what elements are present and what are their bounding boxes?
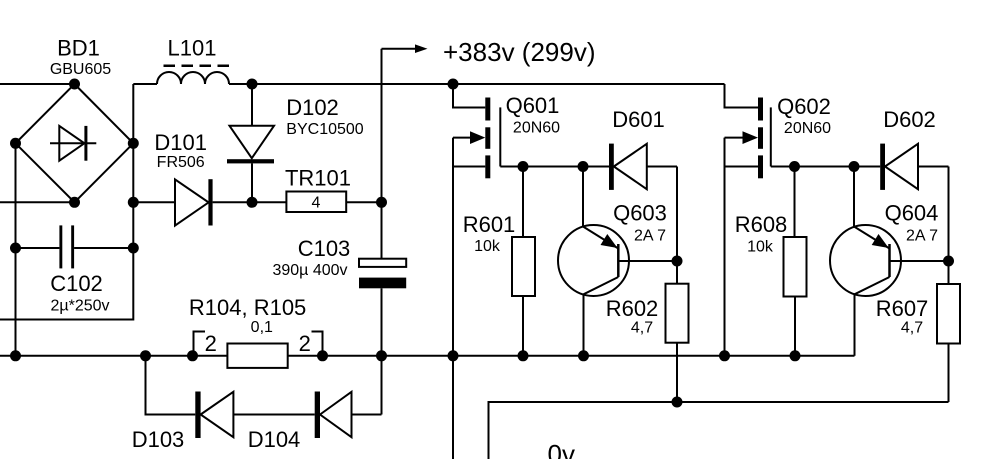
node rail x145 (140, 350, 151, 361)
svg-text:0,1: 0,1 (251, 319, 273, 336)
svg-text:GBU605: GBU605 (50, 61, 111, 78)
svg-text:D104: D104 (248, 427, 301, 452)
svg-text:Q604: Q604 (885, 201, 939, 226)
diode D102 (227, 84, 274, 202)
wire (0, 84, 133, 320)
transistor Q604 (830, 167, 949, 356)
mosfet Q601 (453, 84, 523, 459)
node rail x795 (790, 350, 801, 361)
node Q604 emitter tap (849, 161, 860, 172)
node rail x453 (448, 350, 459, 361)
svg-text:D602: D602 (883, 107, 936, 132)
svg-text:D101: D101 (154, 130, 207, 155)
svg-text:Q601: Q601 (506, 93, 560, 118)
diode D103 (146, 356, 315, 438)
diode D104 (315, 392, 382, 439)
resistor R104, R105 (227, 344, 287, 368)
svg-text:R602: R602 (606, 296, 659, 321)
wire top rail (252, 83, 725, 85)
node gate Q601 (518, 161, 529, 172)
node bridge left (10, 138, 21, 149)
node bridge top (69, 79, 80, 90)
transformer winding TR101 (252, 192, 382, 213)
mosfet Q602 (725, 84, 795, 356)
resistor R601 (512, 167, 535, 356)
pin bracket 2 left (194, 332, 206, 352)
wire bottom rail right (288, 355, 855, 357)
diode D602 (854, 144, 949, 190)
svg-text:C102: C102 (50, 271, 103, 296)
node C102 left (10, 243, 21, 254)
svg-text:10k: 10k (474, 238, 501, 255)
wire (795, 166, 855, 168)
svg-text:2µ*250v: 2µ*250v (50, 298, 109, 315)
svg-text:TR101: TR101 (285, 166, 351, 191)
svg-text:D601: D601 (612, 107, 665, 132)
svg-text:20N60: 20N60 (784, 120, 831, 137)
node rail x322 (317, 350, 328, 361)
wire bottom rail left (0, 355, 227, 357)
svg-text:FR506: FR506 (157, 154, 205, 171)
node C102 right (128, 243, 139, 254)
svg-text:C103: C103 (298, 236, 351, 261)
node rail x583 (578, 350, 589, 361)
svg-text:R104, R105: R104, R105 (189, 295, 306, 320)
resistor R602 (666, 284, 689, 402)
node coil out (247, 79, 258, 90)
svg-text:4: 4 (312, 195, 321, 212)
node rail x523 (518, 350, 529, 361)
+383v output arrow (382, 44, 428, 258)
wire D601 anode down (676, 167, 678, 284)
wire D602 anode down (948, 167, 950, 285)
svg-text:4,7: 4,7 (631, 320, 653, 337)
svg-text:2: 2 (299, 331, 311, 356)
svg-text:D103: D103 (132, 427, 185, 452)
node Q603 base (672, 256, 683, 267)
svg-text:390µ 400v: 390µ 400v (272, 262, 347, 279)
node bridge right (128, 138, 139, 149)
node drain tap Q601 (448, 79, 459, 90)
node gate Q602 (789, 161, 800, 172)
svg-text:2A 7: 2A 7 (906, 227, 938, 244)
node rail x381 (376, 350, 387, 361)
bridge rectifier BD1 (16, 84, 134, 202)
svg-text:R601: R601 (463, 212, 516, 237)
inductor L101 (133, 66, 252, 84)
capacitor C102 (16, 225, 134, 268)
svg-text:10k: 10k (747, 238, 774, 255)
pin bracket 2 right (312, 332, 323, 352)
node Q603 emitter tap (578, 161, 589, 172)
node rail x15 (10, 350, 21, 361)
svg-text:0v: 0v (548, 439, 575, 459)
svg-text:BYC10500: BYC10500 (286, 121, 363, 138)
svg-text:D102: D102 (286, 95, 339, 120)
node 0v rail (672, 397, 683, 408)
node bridge bottom (69, 197, 80, 208)
svg-text:+383v (299v): +383v (299v) (443, 37, 595, 67)
resistor R607 (937, 284, 960, 402)
node D101 left (128, 197, 139, 208)
svg-text:L101: L101 (168, 36, 217, 61)
wire (15, 143, 17, 355)
svg-text:2: 2 (205, 331, 217, 356)
svg-text:BD1: BD1 (57, 36, 100, 61)
diode D601 (583, 144, 677, 190)
svg-text:Q603: Q603 (613, 201, 667, 226)
node rail x192 (187, 350, 198, 361)
resistor R608 (784, 167, 807, 356)
svg-text:Q602: Q602 (777, 94, 831, 119)
wire (0, 201, 75, 203)
svg-text:20N60: 20N60 (513, 120, 560, 137)
capacitor C103 (359, 259, 406, 415)
svg-text:R608: R608 (735, 212, 788, 237)
diode D101 (133, 179, 252, 225)
node D101 right (247, 197, 258, 208)
svg-text:2A 7: 2A 7 (634, 227, 666, 244)
wire (0, 83, 75, 85)
wire 0v rail (489, 402, 949, 459)
svg-text:4,7: 4,7 (901, 320, 923, 337)
node TR101 right (376, 197, 387, 208)
node rail x724 (719, 350, 730, 361)
transistor Q603 (558, 167, 677, 356)
wire (523, 166, 583, 168)
node Q604 base (943, 256, 954, 267)
svg-text:R607: R607 (876, 296, 929, 321)
